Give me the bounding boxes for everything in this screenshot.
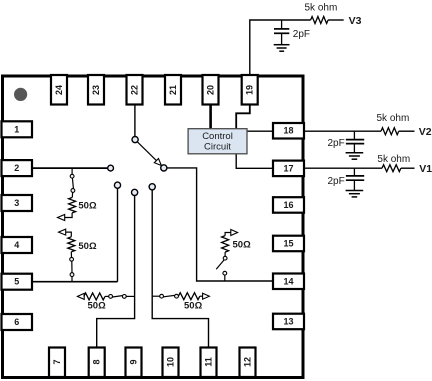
svg-text:18: 18 <box>283 126 293 136</box>
wire to V1 <box>401 167 415 169</box>
svg-text:15: 15 <box>283 239 293 249</box>
resistor 5k ohm (V1) <box>382 165 401 172</box>
control circuit U1 <box>188 129 247 154</box>
svg-text:50Ω: 50Ω <box>88 301 107 312</box>
svg-text:11: 11 <box>204 357 214 367</box>
wire pin19 to control circuit <box>236 104 250 129</box>
svg-text:5k ohm: 5k ohm <box>377 154 410 165</box>
svg-text:5: 5 <box>14 277 19 287</box>
switch SW1 contact <box>161 165 167 171</box>
pin 19 <box>242 75 258 105</box>
capacitor C1 2pF <box>353 168 355 175</box>
svg-text:19: 19 <box>245 85 255 95</box>
svg-text:2pF: 2pF <box>328 176 345 187</box>
wire node B vertical to pin8 <box>97 196 135 349</box>
svg-text:50Ω: 50Ω <box>184 301 203 312</box>
svg-text:V3: V3 <box>349 15 362 27</box>
wire to V3 <box>328 19 344 21</box>
wire pin5 <box>32 281 118 283</box>
node A terminal circle <box>108 165 114 171</box>
wire control circuit to pin17 <box>236 154 274 169</box>
svg-text:4: 4 <box>14 240 19 250</box>
pin 6 <box>2 314 33 330</box>
svg-text:21: 21 <box>168 85 178 95</box>
wire to V2 <box>399 130 415 132</box>
wire pin17 external <box>303 167 382 169</box>
resistor R1 50ohm (left upper) <box>71 168 73 174</box>
svg-text:9: 9 <box>129 359 139 364</box>
resistor R3 50ohm (near pin14) <box>231 230 238 236</box>
ground (V3 cap) <box>274 44 290 46</box>
svg-text:12: 12 <box>243 357 253 367</box>
pin 7 <box>49 348 65 378</box>
svg-text:13: 13 <box>283 317 293 327</box>
resistor 5k ohm (V3) <box>311 17 329 24</box>
pin 15 <box>273 236 304 252</box>
svg-text:17: 17 <box>283 163 293 173</box>
wire node A vertical (pin5 net) <box>117 188 119 282</box>
switch SW1 (pin22) blade <box>137 142 156 161</box>
svg-text:V2: V2 <box>419 126 432 138</box>
svg-text:8: 8 <box>92 359 102 364</box>
resistor R4 50ohm (bottom left row) <box>77 293 84 299</box>
pin 11 <box>201 348 217 378</box>
svg-text:24: 24 <box>54 85 64 95</box>
pin 1 <box>2 121 33 137</box>
svg-text:20: 20 <box>206 85 216 95</box>
resistor R2 50ohm (left lower) <box>59 229 66 235</box>
pin 23 <box>88 75 104 105</box>
pin 16 <box>273 197 304 213</box>
resistor R5 50ohm (bottom right row) <box>152 295 160 297</box>
svg-text:V1: V1 <box>419 163 432 175</box>
wire pin2 <box>32 167 108 169</box>
pin 9 <box>126 348 142 378</box>
wire pin22 to switch pole <box>134 105 136 137</box>
svg-text:Control: Control <box>202 131 233 142</box>
resistor 5k ohm (V2) <box>381 128 399 135</box>
ground (V2 cap) <box>346 152 364 154</box>
pin 10 <box>163 348 179 378</box>
wire switch contact to pin14 <box>167 168 274 281</box>
pin 17 <box>273 161 304 177</box>
svg-text:5k ohm: 5k ohm <box>305 2 338 13</box>
package outline <box>3 76 304 378</box>
pin 2 <box>2 160 33 176</box>
wire pin20 to control circuit <box>209 105 212 129</box>
svg-text:1: 1 <box>14 124 19 134</box>
pin 14 <box>273 274 304 290</box>
node D terminal circle <box>149 184 155 190</box>
svg-text:6: 6 <box>14 317 19 327</box>
svg-text:Circuit: Circuit <box>204 142 231 153</box>
svg-text:50Ω: 50Ω <box>233 239 252 250</box>
svg-text:3: 3 <box>14 198 19 208</box>
wire pin18 external <box>303 130 381 132</box>
node C terminal circle <box>132 189 138 195</box>
svg-text:2: 2 <box>14 163 19 173</box>
pin 3 <box>2 195 33 211</box>
pin 4 <box>2 237 33 253</box>
pin 24 <box>51 75 67 105</box>
svg-text:7: 7 <box>52 359 62 364</box>
pin 12 <box>240 348 256 378</box>
pin 21 <box>165 75 181 105</box>
pin 5 <box>2 274 33 290</box>
capacitor C3 2pF <box>281 20 283 29</box>
pin 13 <box>273 314 304 330</box>
svg-text:50Ω: 50Ω <box>78 241 97 252</box>
pin 18 <box>273 123 304 139</box>
node B terminal circle <box>114 182 120 188</box>
wire control circuit to pin18 <box>246 130 274 132</box>
pin 22 <box>127 75 143 105</box>
pin 8 <box>89 348 105 378</box>
wire pin19 up to external net <box>250 20 311 76</box>
switch SW1 pole <box>132 137 138 143</box>
svg-text:23: 23 <box>91 85 101 95</box>
ground (V1 cap) <box>346 190 364 192</box>
pin-1 marker dot <box>14 88 27 101</box>
svg-text:2pF: 2pF <box>293 29 310 40</box>
svg-text:22: 22 <box>130 85 140 95</box>
svg-text:10: 10 <box>166 357 176 367</box>
svg-text:16: 16 <box>283 200 293 210</box>
capacitor C2 2pF <box>353 131 355 139</box>
svg-text:2pF: 2pF <box>328 138 345 149</box>
pin 20 <box>203 75 219 105</box>
svg-text:50Ω: 50Ω <box>78 201 97 212</box>
svg-text:14: 14 <box>283 276 293 286</box>
wire node C vertical to pin11 <box>152 190 208 348</box>
svg-text:5k ohm: 5k ohm <box>377 113 410 124</box>
